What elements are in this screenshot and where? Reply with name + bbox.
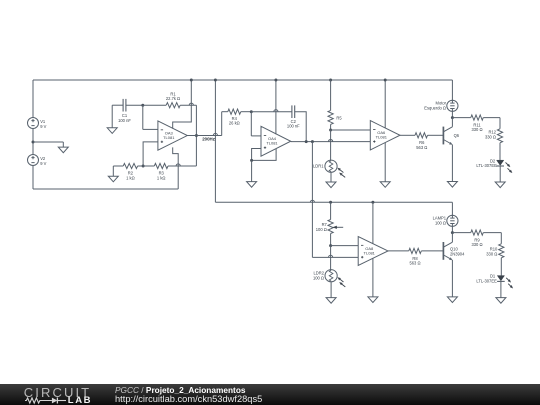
node: rail tap on top rail xyxy=(214,79,217,82)
svg-text:LTL-307EE: LTL-307EE xyxy=(476,279,497,284)
wire: OA4 + input to ground node xyxy=(252,149,261,161)
wire: D2 cathode to ground xyxy=(499,166,501,182)
svg-text:TL081: TL081 xyxy=(376,135,388,140)
node junction between V1 and V2 xyxy=(32,141,35,144)
wire: bottom -9V rail xyxy=(33,188,178,190)
wire: divider to OA8 - input xyxy=(331,245,359,247)
svg-text:1 kΩ: 1 kΩ xyxy=(157,175,166,180)
svg-text:9 V: 9 V xyxy=(40,161,46,166)
svg-text:TL081: TL081 xyxy=(364,250,376,255)
resistor R2 xyxy=(113,163,137,180)
op-amp OA6 xyxy=(370,121,400,150)
wire: lamp to collector node xyxy=(451,226,453,232)
op-amp OA3 xyxy=(158,121,187,150)
ground (C1) xyxy=(107,128,117,134)
resistor R3 xyxy=(138,163,168,180)
ground (supply midpoint) xyxy=(58,147,68,153)
node: OA3 inverting input node xyxy=(141,104,144,107)
resistor R12 xyxy=(485,129,503,143)
node: R2-R3 junction xyxy=(142,165,145,168)
ground (Q10 emitter) xyxy=(447,297,457,303)
ground (LDR1) xyxy=(326,182,336,188)
wire: Q6 emitter to ground xyxy=(451,145,453,182)
ground (OA8) xyxy=(368,297,378,303)
wire: C1 left lead to ground xyxy=(112,105,123,128)
wire: OA4 V- pin to ground node xyxy=(252,149,277,161)
wire: 200Hz up to R4 xyxy=(222,112,228,136)
footer title text xyxy=(115,385,246,395)
svg-text:22.7k Ω: 22.7k Ω xyxy=(166,96,180,101)
node: R7-LDR2 divider node xyxy=(329,244,332,247)
ground (D1) xyxy=(496,298,506,304)
wire: ground stem (OA4) xyxy=(251,160,253,181)
wire: R3 to feedback (hops V- drop) xyxy=(168,136,196,167)
svg-text:TL081: TL081 xyxy=(163,135,175,140)
resistor R9 xyxy=(452,230,483,247)
wire: R9 to R10 xyxy=(483,233,501,244)
node: OA4 ground node xyxy=(250,159,253,162)
wire: OA8 V- pin to ground xyxy=(372,258,374,297)
wire: collector node down to Q10 xyxy=(451,233,453,243)
ground (R2) xyxy=(108,166,118,182)
ground (LDR2) xyxy=(326,298,336,304)
wire: R12 to D2 xyxy=(499,143,501,160)
voltage source V1 xyxy=(28,118,47,129)
wire: OA3 + input to R2/R3 junction xyxy=(143,142,158,166)
wire: OA4 output to OA6 + input (hops divider) xyxy=(291,140,371,142)
wire: OA6 output to R6 xyxy=(400,134,415,136)
svg-text:563 Ω: 563 Ω xyxy=(409,260,420,265)
node: OA3 output junction xyxy=(195,134,198,137)
node: signal tap to lower comparator xyxy=(311,140,314,143)
svg-text:26 kΩ: 26 kΩ xyxy=(229,121,240,126)
wire: OA6 V+ pin to +9V rail xyxy=(384,80,386,128)
svg-text:563 Ω: 563 Ω xyxy=(416,145,427,150)
transistor Q10 xyxy=(443,242,465,260)
node: V+ rail tap for OA3 xyxy=(190,79,193,82)
node: R5-LDR1 divider node xyxy=(329,129,332,132)
wire: OA3 V- pin to -9V rail (hops R3 wire) xyxy=(173,147,179,189)
wire: OA8 output to R8 xyxy=(388,250,409,252)
voltage source V2 xyxy=(28,155,47,166)
potentiometer R7 xyxy=(316,202,343,245)
footer url text xyxy=(115,394,262,404)
wire: C2 right lead down to OA4 output xyxy=(295,112,307,142)
node: C2 output junction xyxy=(305,140,308,143)
wire: mid-supply tap to ground xyxy=(33,142,63,147)
node: rail tap for R5 xyxy=(329,79,332,82)
wire: inverting node to C2 (hops OA4 V+ drop) xyxy=(251,110,292,112)
wire: D1 cathode to ground xyxy=(500,281,502,297)
resistor R11 xyxy=(452,115,483,132)
node: Q6 collector node xyxy=(451,116,454,119)
wire: V1 to V2 xyxy=(32,129,34,155)
wire: divider down to LDR1 (hops signal wire) xyxy=(329,130,333,160)
photoresistor LDR2 xyxy=(313,270,345,287)
ground (D2) xyxy=(495,182,505,188)
op-amp OA8 xyxy=(358,237,388,266)
svg-text:100 nF: 100 nF xyxy=(287,124,300,129)
wire: +9V vertical rail to lower section xyxy=(214,80,216,202)
svg-text:2N3904: 2N3904 xyxy=(450,251,465,256)
svg-text:TL081: TL081 xyxy=(266,141,278,146)
wire: OA3 output xyxy=(187,133,221,135)
svg-text:LDR1: LDR1 xyxy=(313,164,324,169)
photoresistor LDR1 xyxy=(313,160,345,177)
node: OA4 inverting node xyxy=(250,110,253,113)
node: V+ rail tap for OA4 xyxy=(274,79,277,82)
wire: OA8 V+ pin to lower +9V rail xyxy=(372,202,374,244)
resistor R8 xyxy=(409,248,422,265)
svg-text:Esquerdo Ω: Esquerdo Ω xyxy=(424,105,446,110)
CircuitLab logo: CIRCUIT wordmark xyxy=(24,385,91,400)
wire: divider to OA6 - input xyxy=(331,129,371,131)
CircuitLab logo: resistor-diode line with LAB xyxy=(25,396,67,405)
wire: R10 to D1 xyxy=(500,258,502,276)
wire: inverting node down to OA3 - input xyxy=(143,105,158,129)
wire: C1 to inverting node xyxy=(126,104,143,106)
node: Q10 collector node xyxy=(451,231,454,234)
wire: R11 to R12 xyxy=(483,118,500,129)
wire: R1 right lead over rail to output (hop) xyxy=(180,103,196,135)
svg-text:330 Ω: 330 Ω xyxy=(471,242,482,247)
svg-text:330 Ω: 330 Ω xyxy=(485,135,496,140)
node label 200Hz xyxy=(202,137,215,142)
wire: LDR1 to ground xyxy=(330,172,332,182)
resistor R6 xyxy=(415,133,428,150)
svg-text:100 Ω: 100 Ω xyxy=(313,275,324,280)
svg-text:330 Ω: 330 Ω xyxy=(486,252,497,257)
footer bar xyxy=(0,384,540,405)
wire: lower rail down to lamp xyxy=(451,202,453,215)
svg-text:9 V: 9 V xyxy=(40,124,46,129)
wire: collector node down to Q6 xyxy=(451,118,453,127)
svg-text:330 Ω: 330 Ω xyxy=(471,127,482,132)
wire: signal drop to OA8 + input (hops lower rail) xyxy=(312,142,358,258)
svg-text:100 Ω: 100 Ω xyxy=(435,220,446,225)
wire: top rail down to motor xyxy=(451,80,453,100)
svg-text:200Hz: 200Hz xyxy=(202,137,215,142)
wire: OA4 V+ pin to +9V rail xyxy=(275,80,277,134)
wire: inverting node down to OA4 - input xyxy=(251,112,261,136)
wire: OA6 V- pin to ground xyxy=(384,143,386,182)
resistor R5 xyxy=(328,80,342,130)
wire: left supply rail (V1 top lead) xyxy=(32,80,34,118)
node: lower rail tap for R7 xyxy=(329,201,332,204)
node: lower rail tap for OA8 V+ xyxy=(371,201,374,204)
transistor Q6 xyxy=(443,127,459,145)
svg-text:100 nF: 100 nF xyxy=(118,118,131,123)
resistor R10 xyxy=(486,244,504,258)
wire: V2 bottom lead xyxy=(32,166,34,190)
capacitor C1 xyxy=(118,99,131,123)
wire: R6 to Q6 base xyxy=(428,134,444,136)
LED D1 xyxy=(476,274,512,289)
lamp LAMP1 xyxy=(433,215,458,226)
wire: divider down to LDR2 (hops signal wire) xyxy=(329,246,333,270)
capacitor C2 xyxy=(287,105,300,128)
svg-text:1 kΩ: 1 kΩ xyxy=(126,175,135,180)
wire: LDR2 to ground xyxy=(330,282,332,298)
resistor R1 xyxy=(143,91,180,107)
wire: R8 to Q10 base xyxy=(421,250,443,252)
wire: top +9V rail xyxy=(33,79,452,81)
ground (OA4) xyxy=(247,182,257,188)
op-amp OA4 xyxy=(261,126,291,156)
svg-text:100 Ω: 100 Ω xyxy=(316,227,327,232)
wire: motor to collector node xyxy=(451,111,453,117)
motor M1 (Motor Esquerdo) xyxy=(424,100,458,111)
LED D2 xyxy=(476,158,512,173)
wire: lower +9V rail xyxy=(215,200,452,202)
wire: OA3 V+ pin to +9V rail xyxy=(173,80,192,129)
svg-text:R5: R5 xyxy=(336,115,342,120)
node: V+ rail tap for OA6 xyxy=(384,79,387,82)
wire: Q10 emitter to ground xyxy=(451,260,453,297)
ground (Q6 emitter) xyxy=(447,182,457,188)
resistor R4 xyxy=(228,109,252,126)
ground (OA6) xyxy=(380,182,390,188)
svg-text:LTL-307EE: LTL-307EE xyxy=(476,163,497,168)
svg-text:Q6: Q6 xyxy=(454,133,460,138)
